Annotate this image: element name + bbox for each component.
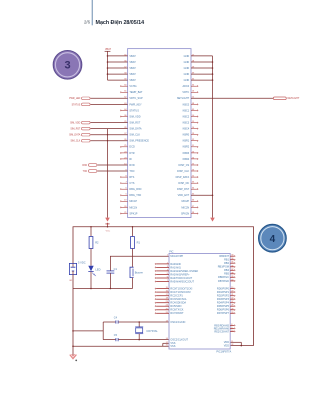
port terminal NETLIGHT wired to U1 [177, 97, 300, 101]
power terminal + on rail [105, 223, 110, 233]
U2 pin 21 RD2/PSP2 [217, 294, 235, 297]
wire U1 GND pin 3 to right rail [184, 66, 214, 70]
svg-text:VBAT: VBAT [105, 48, 112, 51]
svg-text:RD7/PSP7: RD7/PSP7 [217, 312, 230, 315]
svg-text:DBG_TXD: DBG_TXD [129, 194, 141, 197]
U2 pin 34 RB1 [224, 258, 235, 261]
U1 left pin stub row 26 [120, 206, 137, 210]
svg-text:C1: C1 [114, 267, 118, 271]
U1 right pin stub row 13 [183, 127, 198, 131]
svg-text:DBG_RXD: DBG_RXD [129, 188, 141, 191]
U1 right pin stub row 16 [183, 145, 198, 149]
port terminal SIM_CLK wired to U1 [70, 139, 149, 143]
U2 pin 31 VSS [166, 345, 176, 348]
svg-text:VBAT: VBAT [129, 73, 136, 76]
U2 pin 19 RD0/PSP0 [217, 287, 235, 290]
wire VDD pins to +5V rail [230, 342, 253, 346]
svg-text:DTR: DTR [129, 152, 134, 155]
U2 pin 37 RB4 [224, 269, 235, 272]
svg-text:PIC16F877A: PIC16F877A [216, 349, 231, 353]
U2 pin 12 VSS [166, 342, 176, 345]
wire rail to crystal tap [72, 322, 116, 340]
U1 left pin stub row 10 [120, 109, 139, 113]
U2 pin 14 OSC2/CLKOUT [166, 338, 189, 341]
U2 pin 8 RE0/RD/AN5 [214, 324, 235, 327]
svg-text:KBR0: KBR0 [183, 134, 190, 137]
svg-text:SIM_CLK: SIM_CLK [129, 134, 140, 137]
U1 right pin stub row 11 [183, 115, 198, 119]
svg-text:NETLIGHT: NETLIGHT [177, 97, 190, 100]
svg-text:TXD: TXD [129, 170, 134, 173]
svg-text:STATUS: STATUS [72, 103, 81, 106]
svg-text:GND: GND [184, 73, 190, 76]
wire U1 GND pin 5 to right rail [184, 79, 214, 83]
svg-text:RI: RI [129, 158, 132, 161]
ground terminal [70, 354, 77, 361]
port terminal TXD wired to U1 [83, 169, 135, 173]
U1 right pin stub row 12 [183, 121, 198, 125]
capacitor C1 [107, 267, 118, 289]
svg-text:PWR_LED: PWR_LED [69, 98, 80, 100]
wire VBAT rail to U1 pin row 3 [107, 66, 137, 70]
U1 right pin stub row 26 [181, 206, 198, 210]
U2 pin 11 VDD [224, 341, 234, 344]
U1 right pin stub row 19 [178, 163, 198, 167]
U1 right pin stub row 20 [177, 169, 198, 173]
svg-text:SIM_CLK: SIM_CLK [70, 141, 80, 143]
capacitor C5 [114, 334, 169, 341]
svg-text:VDD_EXT: VDD_EXT [178, 194, 190, 197]
U1 left pin stub row 21 [120, 176, 134, 180]
U2 pin 35 RB2 [224, 262, 235, 265]
svg-text:4: 4 [270, 234, 276, 245]
svg-text:SIM_RST: SIM_RST [129, 122, 140, 125]
U1 right pin stub row 17 [183, 151, 198, 155]
U2 pin 4 RA2/AN2/VREF-/CVREF [155, 269, 199, 272]
svg-text:Buzzer: Buzzer [135, 270, 143, 274]
svg-text:KBC1: KBC1 [183, 109, 190, 112]
svg-text:KBC0: KBC0 [183, 103, 190, 106]
U1 left pin stub row 23 [120, 188, 141, 192]
+5V top rail wire [73, 227, 254, 346]
wire VBAT rail to U1 pin row 1 [107, 54, 137, 58]
svg-text:2/6: 2/6 [84, 20, 91, 25]
svg-text:RXD: RXD [82, 165, 87, 167]
U1 left pin stub row 6 [120, 85, 136, 89]
U1 left pin stub row 17 [120, 151, 134, 155]
port terminal STATUS wired to U1 [72, 103, 142, 107]
svg-text:PWR_KEY: PWR_KEY [129, 103, 142, 106]
ground return bottom rail [73, 288, 133, 290]
svg-text:NETLIGHT: NETLIGHT [288, 97, 300, 100]
U2 pin 28 RD5/PSP5 [217, 305, 235, 308]
svg-text:RTS: RTS [129, 176, 134, 179]
svg-text:VRTC: VRTC [182, 91, 189, 94]
U1 right pin stub row 21 [176, 176, 198, 180]
svg-text:SIM_VDD: SIM_VDD [70, 123, 81, 125]
svg-text:5 VDC: 5 VDC [78, 260, 86, 264]
U2 pin 1 MCLR/VPP [167, 255, 184, 258]
U1 right pin stub row 22 [178, 182, 198, 186]
LED D1 [88, 249, 100, 290]
U2 pin 10 RE2/CS/AN7 [214, 330, 235, 333]
U1 right pin stub row 14 [183, 133, 198, 137]
U1 right pin stub row 27 [181, 212, 198, 216]
svg-text:VSS: VSS [170, 345, 175, 348]
svg-text:CTS: CTS [129, 182, 134, 185]
U2 pin 29 RD6/PSP6 [217, 308, 235, 311]
svg-text:RC5/SDO: RC5/SDO [170, 305, 181, 308]
svg-text:DISP_CLK: DISP_CLK [177, 170, 189, 173]
svg-text:KBC4: KBC4 [183, 128, 190, 131]
svg-text:DISP_CS: DISP_CS [178, 164, 189, 167]
callout badge 4 [259, 224, 287, 252]
svg-text:SIM_VDD: SIM_VDD [129, 115, 140, 118]
svg-text:RE2/CS/AN7: RE2/CS/AN7 [214, 330, 229, 333]
svg-text:VDD: VDD [224, 345, 229, 348]
svg-text:R1: R1 [137, 240, 141, 244]
svg-text:RB7/PGD: RB7/PGD [218, 280, 229, 283]
U2 pin 40 RB7/PGD [218, 279, 235, 282]
svg-text:MCLR/VPP: MCLR/VPP [170, 255, 183, 258]
U1 right pin stub row 18 [183, 157, 198, 161]
svg-text:VBAT: VBAT [129, 55, 136, 58]
svg-text:DISP_DC: DISP_DC [178, 182, 189, 185]
PIC16F877A U2 body [169, 251, 231, 354]
wire U1 GND pin 1 to right rail [184, 54, 213, 58]
U2 pin 15 RC0/T1OSO/T1CKI [155, 287, 193, 290]
U1 left pin stub row 16 [120, 145, 135, 149]
U2 pin 22 RD3/PSP3 [217, 298, 235, 301]
svg-text:R2: R2 [95, 240, 99, 244]
U2 pin 13 OSC1/CLKIN [166, 321, 186, 324]
port terminal RXD wired to U1 [82, 163, 135, 167]
U1 right pin stub row 15 [183, 139, 198, 143]
svg-text:KBR2: KBR2 [183, 146, 190, 149]
U2 pin 38 RB5 [224, 272, 235, 275]
svg-text:RB6/PGC: RB6/PGC [218, 276, 229, 279]
header separator line [91, 0, 93, 25]
svg-text:GND: GND [184, 61, 190, 64]
U2 pin 32 VDD [224, 344, 235, 347]
U2 pin 2 RA0/AN0 [155, 262, 181, 265]
svg-text:RXD: RXD [129, 164, 134, 167]
svg-text:VCHG: VCHG [129, 85, 136, 88]
wire U1 VDD_EXT pin to right rail [178, 194, 214, 198]
U1 left pin stub row 7 [120, 91, 143, 95]
U1 left pin stub row 18 [120, 157, 132, 161]
svg-text:ADC0: ADC0 [183, 85, 190, 88]
U1 right pin stub row 6 [183, 85, 199, 89]
svg-text:MIC2P: MIC2P [182, 200, 190, 203]
wire left rail down [72, 289, 74, 355]
U2 pin 26 RC7/RX/DT [155, 312, 184, 315]
U2 pin 25 RC6/TX/CK [155, 308, 184, 311]
U2 pin 3 RA1/AN1 [155, 266, 181, 269]
U2 pin 5 RA3/AN3/VREF+ [155, 273, 190, 276]
svg-text:KBR4: KBR4 [183, 158, 190, 161]
svg-text:TEMP_BAT: TEMP_BAT [129, 91, 142, 94]
port terminal SIM_VDD wired to U1 [70, 121, 141, 125]
U1 left ground rail [105, 129, 110, 222]
U2 pin 9 RE1/WR/AN6 [214, 327, 235, 330]
callout badge 3 [53, 51, 82, 80]
svg-text:GND: GND [184, 55, 190, 58]
U1 right pin stub row 9 [183, 103, 198, 107]
svg-text:SPK2N: SPK2N [181, 212, 189, 215]
U1 right pin stub row 23 [177, 188, 198, 192]
svg-text:MIC1P: MIC1P [129, 200, 137, 203]
svg-text:SIM_DATA: SIM_DATA [69, 134, 81, 137]
svg-text:MIC1N: MIC1N [129, 206, 137, 209]
U2 pin 33 RB0/INT [219, 255, 235, 258]
wire MCLR to C1 [110, 256, 169, 271]
svg-text:GND: GND [184, 67, 190, 70]
U2 pin 24 RC5/SDO [155, 305, 182, 308]
svg-text:RD5/PSP5: RD5/PSP5 [217, 305, 230, 308]
svg-text:LED: LED [95, 267, 100, 271]
svg-text:VBAT: VBAT [129, 79, 136, 82]
svg-text:RA2/AN2/VREF-/CVREF: RA2/AN2/VREF-/CVREF [170, 270, 198, 273]
U1 right pin stub row 10 [183, 109, 198, 113]
U1 right pin stub row 25 [182, 200, 198, 204]
svg-text:SIM_DATA: SIM_DATA [129, 128, 141, 131]
svg-text:VCC: VCC [106, 231, 111, 233]
svg-text:MIC2N: MIC2N [181, 206, 189, 209]
U2 pin 20 RD1/PSP1 [217, 291, 235, 294]
svg-text:STATUS: STATUS [129, 109, 139, 112]
wire U1 GND pin 4 to right rail [184, 73, 214, 77]
svg-text:VBAT: VBAT [129, 67, 136, 70]
resistor R1 [131, 226, 141, 249]
svg-text:SIM_PRESENCE: SIM_PRESENCE [129, 140, 149, 143]
svg-text:VRTC_SUP: VRTC_SUP [129, 97, 143, 100]
wire VBAT rail to U1 pin row 2 [107, 60, 137, 64]
wire VBAT rail to U1 pin row 4 [107, 73, 137, 77]
svg-text:CRYSTAL: CRYSTAL [146, 330, 158, 333]
U2 pin 36 RB3/PGM [218, 265, 235, 268]
GSM module U1 body [128, 49, 191, 218]
U2 pin 18 RC3/SCK/SCL [155, 298, 187, 301]
U1 right pin stub row 7 [182, 91, 198, 95]
svg-text:RB2: RB2 [224, 262, 229, 265]
U2 pin 27 RD4/PSP4 [217, 301, 235, 304]
wire VBAT rail to U1 pin row 5 [108, 79, 137, 83]
U1 right ground rail [210, 56, 215, 222]
power terminal VBAT [105, 48, 112, 80]
resistor R2 [89, 226, 99, 249]
wire battery to bottom rail [72, 275, 74, 289]
U2 pin 39 RB6/PGC [218, 276, 235, 279]
U1 left pin stub row 27 [120, 212, 138, 216]
svg-text:DISP_DATA: DISP_DATA [176, 176, 190, 179]
wire U1 GND pin 2 to right rail [184, 60, 214, 64]
svg-text:DISP_RST: DISP_RST [177, 188, 190, 191]
U1 left pin stub row 22 [120, 182, 134, 186]
U2 pin 6 RA4/T0CKI/C1OUT [155, 277, 193, 280]
U1 left pin stub row 11 [120, 115, 140, 119]
port terminal PWR_LED wired to U1 [69, 97, 143, 101]
U2 pin 17 RC2/CCP1 [155, 294, 183, 297]
capacitor C4 [114, 316, 169, 323]
svg-text:SPK1P: SPK1P [129, 212, 137, 215]
svg-text:VBAT: VBAT [129, 61, 136, 64]
svg-text:RC1/T1OSI/CCP2: RC1/T1OSI/CCP2 [170, 291, 191, 294]
svg-text:KBR3: KBR3 [183, 152, 190, 155]
svg-text:KBR1: KBR1 [183, 140, 190, 143]
wire VSS to ground rail [72, 343, 169, 347]
port terminal SIM_DATA wired to U1 [69, 133, 140, 137]
U1 left pin stub row 24 [120, 194, 141, 198]
U2 pin 30 RD7/PSP7 [217, 312, 235, 315]
svg-text:Mạch Điện 28/05/14: Mạch Điện 28/05/14 [96, 20, 145, 26]
svg-text:DCD: DCD [129, 146, 135, 149]
svg-text:OSC1/CLKIN: OSC1/CLKIN [170, 321, 185, 324]
svg-text:TXD: TXD [83, 171, 88, 173]
svg-text:KBC2: KBC2 [183, 115, 190, 118]
battery BAT1 5 VDC [69, 260, 85, 282]
svg-text:KBC3: KBC3 [183, 122, 190, 125]
U2 pin 7 RA5/AN4/SS/C2OUT [155, 280, 194, 283]
svg-text:RC7/RX/DT: RC7/RX/DT [170, 312, 184, 315]
buzzer BZ1 [130, 249, 143, 289]
U2 pin 23 RC4/SDI/SDA [155, 301, 186, 304]
U2 pin 16 RC1/T1OSI/CCP2 [155, 291, 191, 294]
crystal X1 [135, 321, 158, 340]
svg-text:RA5/AN4/SS/C2OUT: RA5/AN4/SS/C2OUT [170, 280, 194, 283]
svg-text:SIM_RST: SIM_RST [70, 129, 81, 131]
U1 left pin stub row 25 [120, 200, 137, 204]
svg-text:GND: GND [184, 79, 190, 82]
port terminal SIM_RST wired to U1 [70, 127, 142, 131]
svg-text:3: 3 [64, 60, 70, 72]
svg-text:RD1/PSP1: RD1/PSP1 [217, 291, 230, 294]
svg-text:OSC2/CLKOUT: OSC2/CLKOUT [170, 339, 188, 342]
